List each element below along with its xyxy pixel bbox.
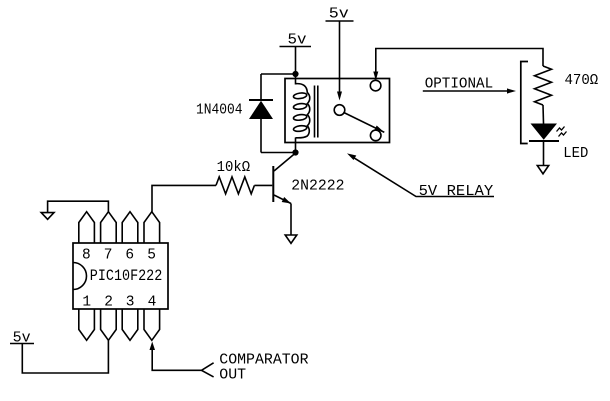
wire emitter to ground [290,204,292,235]
relay core [315,86,318,138]
svg-text:8: 8 [82,247,91,263]
resistor R2 470 ohm [535,66,599,105]
resistor R1 10k ohm [216,159,254,194]
ground (below LED) [537,166,548,174]
wire pin5 to R1 [152,185,216,211]
diode D1 1N4004 [196,74,273,153]
relay NO contact [370,80,381,91]
transistor Q1 2N2222 [273,153,344,204]
power 5v P1 (left, to relay coil top) [280,31,312,74]
svg-text:1N4004: 1N4004 [196,102,243,119]
pin 5 [144,212,160,243]
wire (diode bottom to J2) [261,152,296,154]
junction dot J1 (coil top / 5v / diode) [292,71,298,77]
svg-text:6: 6 [125,247,134,263]
svg-text:5v: 5v [329,5,349,22]
wire (diode top to J1) [261,73,296,75]
COMPARATOR OUT callout (IC pin 4) [150,342,309,384]
pin 2 [101,309,117,340]
wire from relay NO contact up and right to resistor [373,49,543,81]
relay common contact [334,105,345,116]
pin 3 [122,309,138,340]
pin 6 [122,212,138,243]
svg-text:4: 4 [148,295,157,311]
relay coil pins [295,74,297,85]
svg-text:OPTIONAL: OPTIONAL [425,75,494,92]
svg-text:LED: LED [563,145,588,162]
svg-text:2: 2 [104,295,113,311]
ground (below transistor) [285,235,297,243]
LED D2 [529,124,588,163]
OPTIONAL callout [423,75,516,93]
svg-text:5: 5 [147,247,156,263]
relay moving contact [370,130,381,141]
wire R1 to base [254,184,272,186]
pin 4 [144,309,160,340]
wire LED to ground [543,141,545,165]
svg-text:3: 3 [126,295,135,311]
optional bracket [521,62,528,144]
pin 1 [79,309,95,340]
pin 7 [101,212,117,243]
svg-text:2N2222: 2N2222 [291,178,344,195]
power 5v P2 (middle, to relay common contact) [326,5,354,100]
svg-text:470Ω: 470Ω [565,72,599,89]
wire resistor to LED [542,105,545,124]
5V RELAY callout [347,153,494,199]
relay switch arm [344,113,385,133]
svg-text:OUT: OUT [219,366,246,383]
svg-text:10kΩ: 10kΩ [217,159,251,176]
pin 8 [79,212,95,243]
svg-text:1: 1 [82,295,91,311]
IC notch [73,263,87,290]
IC U1 PIC10F222 body [73,243,168,309]
svg-text:PIC10F222: PIC10F222 [90,267,163,285]
relay coil [293,84,310,138]
relay K1 body [285,79,390,143]
power 5v P3 (bottom-left, to IC pin 2) [10,330,108,374]
junction dot J2 (coil bottom / diode / collector) [292,149,298,155]
ground (top-left, to IC pin 7) [41,201,108,219]
svg-text:7: 7 [104,247,113,263]
